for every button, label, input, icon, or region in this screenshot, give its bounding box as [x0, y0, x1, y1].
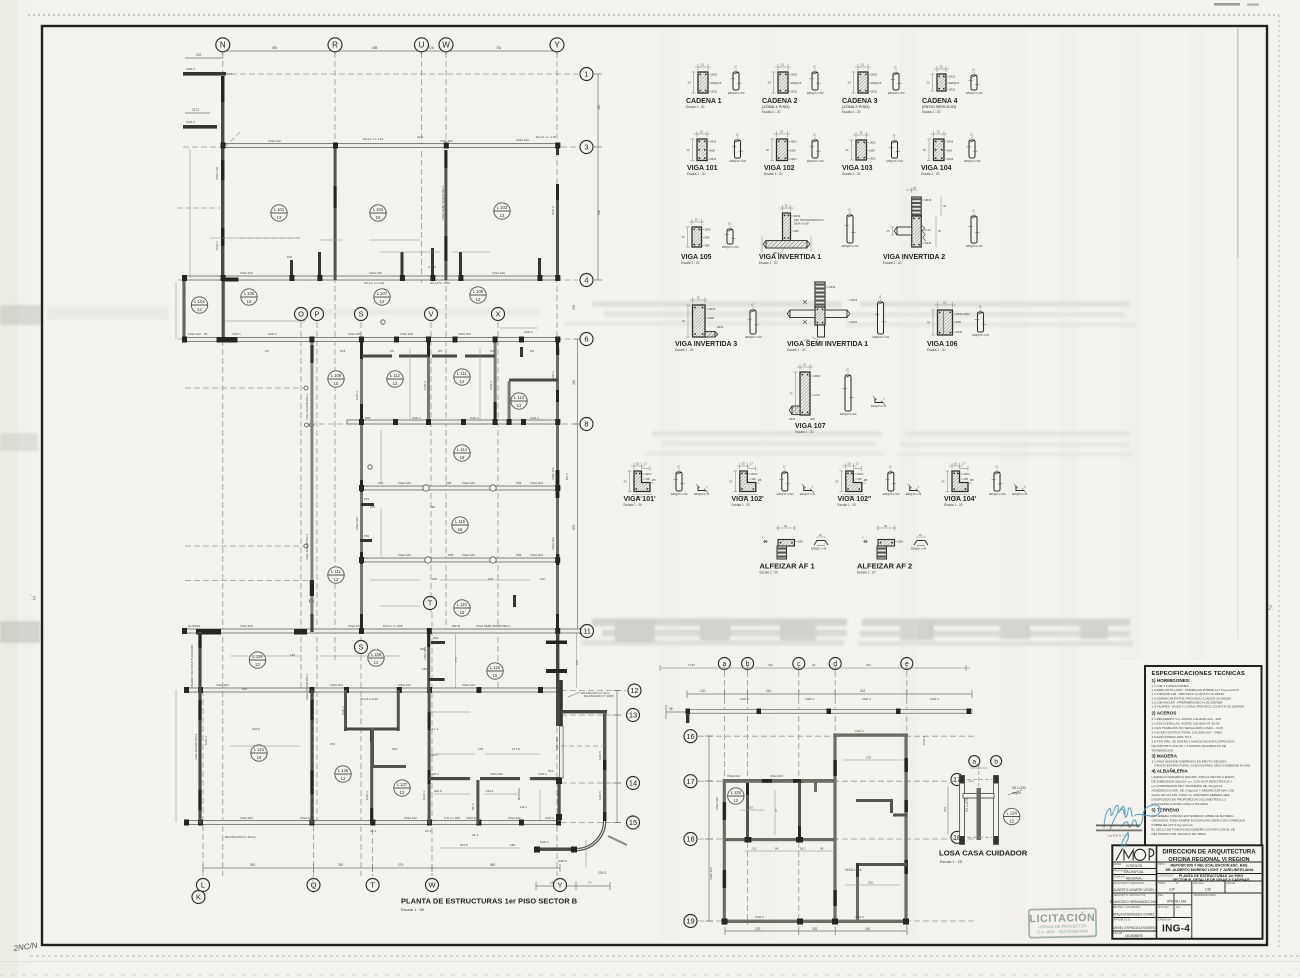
svg-text:5) TERRENO: 5) TERRENO — [1152, 808, 1180, 813]
svg-text:2Ø16: 2Ø16 — [829, 286, 836, 289]
svg-text:EØ6: EØ6 — [709, 317, 715, 320]
svg-text:P06: P06 — [446, 481, 452, 485]
svg-text:2.4 ACERO ESTRUCTURAL CALIDAD: 2.4 ACERO ESTRUCTURAL CALIDAD A37 - 24ES — [1152, 730, 1222, 734]
svg-text:EØ6@15: EØ6@15 — [791, 82, 802, 85]
svg-text:15: 15 — [695, 218, 699, 222]
svg-text:M.H.A. L= 1.35: M.H.A. L= 1.35 — [536, 135, 556, 139]
svg-text:VIGA INVERTIDA 3: VIGA INVERTIDA 3 — [305, 674, 309, 700]
svg-text:VIGA 105: VIGA 105 — [681, 254, 712, 261]
svg-text:V8 L=103: V8 L=103 — [1012, 786, 1026, 790]
grid dashed lines vertical — [203, 52, 557, 876]
svg-text:2Ø12: 2Ø12 — [711, 74, 718, 77]
svg-text:DILATACION e= 30mm: DILATACION e= 30mm — [225, 835, 256, 839]
grid dashed lines — [698, 671, 975, 930]
svg-text:2Ø16: 2Ø16 — [710, 158, 717, 161]
svg-text:LGP: LGP — [1169, 888, 1175, 892]
detail rails — [960, 776, 965, 845]
svg-text:13: 13 — [629, 711, 637, 720]
svg-text:DR. ALBERTO MORENO LIGHT Y JAR: DR. ALBERTO MORENO LIGHT Y JARD.INF.ELIA… — [1165, 868, 1254, 872]
svg-text:15: 15 — [886, 229, 890, 233]
room tag L 159 — [368, 650, 384, 666]
svg-text:N: N — [220, 41, 226, 50]
svg-text:CAD 1: CAD 1 — [524, 330, 533, 334]
svg-text:L 104: L 104 — [194, 299, 205, 304]
top long beam CAD 4 — [687, 710, 972, 714]
svg-text:178: 178 — [478, 747, 483, 751]
svg-text:P16: P16 — [548, 769, 554, 773]
svg-text:Escala 1 : 20: Escala 1 : 20 — [883, 261, 902, 265]
svg-text:Escala 1 : 20: Escala 1 : 20 — [838, 503, 857, 507]
svg-text:13: 13 — [277, 215, 282, 220]
svg-text:TERMINACION: TERMINACION — [1152, 748, 1174, 752]
svg-text:EØ6@15 L=100: EØ6@15 L=100 — [840, 414, 857, 416]
svg-text:VIGA 104: VIGA 104 — [921, 165, 952, 172]
svg-text:APROBO D.O.: APROBO D.O. — [1114, 918, 1131, 922]
svg-text:L 119: L 119 — [252, 654, 263, 659]
svg-text:870: 870 — [572, 524, 576, 530]
svg-text:EØ6@15 L=100: EØ6@15 L=100 — [728, 93, 745, 95]
svg-text:12: 12 — [197, 307, 202, 312]
svg-text:P12: P12 — [392, 747, 398, 751]
svg-text:2Ø12: 2Ø12 — [964, 473, 971, 476]
svg-text:A.S. L= 180: A.S. L= 180 — [444, 816, 460, 820]
beam right annex vertical — [560, 726, 564, 778]
svg-text:111: 111 — [752, 847, 757, 851]
svg-text:2Ø12: 2Ø12 — [646, 473, 653, 476]
beam grid12 — [185, 688, 561, 692]
wall long interior x312 — [310, 338, 313, 632]
beam detail VIGA 101p — [623, 462, 710, 508]
svg-text:EØ6: EØ6 — [956, 321, 962, 324]
beam detail VIGA 102pp — [835, 462, 922, 508]
svg-text:L 127: L 127 — [397, 782, 408, 787]
room tag L 107 — [374, 289, 390, 305]
svg-text:2Ø12: 2Ø12 — [949, 76, 956, 79]
svg-text:340: 340 — [597, 104, 601, 110]
svg-text:4: 4 — [584, 276, 588, 285]
svg-text:EØ6@15 L=100: EØ6@15 L=100 — [973, 335, 990, 337]
grid bubble 4 — [580, 274, 593, 287]
svg-text:VIGA 102: VIGA 102 — [727, 774, 740, 778]
svg-text:30: 30 — [847, 81, 851, 85]
band5 verticals — [427, 633, 430, 690]
svg-text:EØ6@15 L=100: EØ6@15 L=100 — [745, 337, 762, 339]
svg-text:EØ6@15 L=100: EØ6@15 L=100 — [888, 93, 905, 95]
svg-text:Escala 1 : 20: Escala 1 : 20 — [764, 172, 783, 176]
svg-text:e=20: e=20 — [925, 229, 931, 232]
svg-text:DOSIFICADO EN PROPORCION VOLUM: DOSIFICADO EN PROPORCION VOLUMETRICA 1:3 — [1152, 797, 1227, 801]
svg-text:L 124: L 124 — [1007, 811, 1018, 816]
beam detail VIGA 105 — [681, 218, 739, 266]
svg-text:Escala 1 : 20: Escala 1 : 20 — [921, 172, 940, 176]
svg-text:240.5: 240.5 — [434, 789, 442, 793]
svg-text:VIGA 102: VIGA 102 — [508, 816, 521, 820]
svg-text:CAD 1: CAD 1 — [232, 332, 241, 336]
wall x361 — [360, 341, 363, 632]
svg-text:DILATACION e= 2cm: DILATACION e= 2cm — [581, 691, 610, 695]
svg-text:VIGA INVERTIDA 2: VIGA INVERTIDA 2 — [883, 254, 945, 261]
svg-text:V 200: V 200 — [428, 265, 436, 269]
svg-text:2.3 EN TRABAJOS NO SENALADOS U: 2.3 EN TRABAJOS NO SENALADOS USAR ~ CU8 — [1152, 726, 1223, 730]
svg-text:VIGA INVERTIDA 3: VIGA INVERTIDA 3 — [675, 341, 737, 348]
svg-text:EØ8@21 L=34: EØ8@21 L=34 — [911, 549, 927, 551]
svg-text:15: 15 — [785, 204, 789, 208]
gilatacion arrow note — [568, 692, 580, 697]
beam detail VIGA INVERTIDA 3 — [675, 296, 762, 353]
svg-text:VIGA INVERTIDA 3: VIGA INVERTIDA 3 — [305, 534, 309, 560]
svg-text:1) HORMIGONES:: 1) HORMIGONES: — [1152, 678, 1191, 683]
svg-text:16: 16 — [257, 755, 262, 760]
svg-text:VIGA 102: VIGA 102 — [440, 139, 453, 143]
svg-text:AGUA DE UN 14% TODO 12. MORTER: AGUA DE UN 14% TODO 12. MORTERO DEBERA S… — [1152, 793, 1231, 797]
svg-text:VIGA 105: VIGA 105 — [348, 332, 361, 336]
grid bubble b — [742, 658, 754, 670]
svg-text:CO...: CO... — [1176, 905, 1182, 909]
svg-text:`s: `s — [30, 595, 36, 602]
svg-text:VIGA 103: VIGA 103 — [240, 271, 253, 275]
svg-text:8: 8 — [584, 420, 588, 429]
svg-text:30: 30 — [767, 81, 771, 85]
svg-text:15: 15 — [913, 186, 917, 190]
beam detail VIGA 102p — [729, 462, 816, 508]
svg-text:CIERRO S/ESTRUCTURACION: CIERRO S/ESTRUCTURACION — [190, 645, 194, 688]
beam grid8 — [347, 420, 560, 424]
svg-text:2Ø16: 2Ø16 — [710, 141, 717, 144]
svg-text:LA COMPRESION MIN. PROMEDIO DE: LA COMPRESION MIN. PROMEDIO DE 40 kg/cm2 — [1152, 784, 1223, 788]
svg-text:VIGA 106: VIGA 106 — [369, 271, 382, 275]
svg-text:EØ6@15 L=100: EØ6@15 L=100 — [777, 494, 794, 496]
svg-text:EØ6@15 L=100: EØ6@15 L=100 — [966, 93, 983, 95]
svg-text:120: 120 — [700, 689, 706, 693]
ghost band B — [0, 431, 1133, 457]
svg-text:12: 12 — [393, 381, 398, 386]
beam detail VIGA 107 — [789, 363, 887, 435]
svg-text:P06: P06 — [516, 553, 522, 557]
svg-text:30: 30 — [687, 81, 691, 85]
svg-text:L 126: L 126 — [731, 790, 742, 795]
piers on beams — [182, 143, 585, 826]
beam detail CADENA 4 — [922, 65, 983, 115]
svg-text:EØ6@15 L=100: EØ6@15 L=100 — [989, 494, 1006, 496]
svg-text:15: 15 — [636, 462, 640, 466]
svg-text:15: 15 — [859, 131, 863, 135]
svg-text:1:50: 1:50 — [1205, 888, 1211, 892]
interior verticals — [746, 783, 749, 841]
svg-text:12: 12 — [380, 299, 385, 304]
svg-text:15: 15 — [803, 363, 807, 367]
svg-text:EØ6@15 L=100: EØ6@15 L=100 — [887, 161, 904, 163]
svg-text:X: X — [496, 310, 501, 319]
rotated labels along vertical walls — [190, 167, 602, 810]
svg-text:142.8: 142.8 — [557, 347, 561, 355]
svg-text:P01: P01 — [364, 534, 370, 538]
svg-text:V: V — [429, 310, 434, 319]
svg-text:CAD 6: CAD 6 — [598, 751, 602, 760]
diagonal pen mark near curve — [608, 836, 627, 845]
svg-text:236: 236 — [868, 881, 873, 885]
svg-text:EØ6@15 L=46: EØ6@15 L=46 — [800, 494, 816, 496]
svg-text:P21: P21 — [287, 255, 293, 259]
svg-text:P21: P21 — [364, 497, 370, 501]
beam detail CADENA 3 — [842, 63, 905, 115]
svg-text:EØ6@15 L=100: EØ6@15 L=100 — [873, 337, 890, 339]
signature (blue) — [1104, 805, 1160, 847]
svg-text:12: 12 — [334, 577, 339, 582]
svg-text:11: 11 — [583, 627, 591, 636]
svg-text:192.6: 192.6 — [252, 727, 260, 731]
left margin strip — [0, 0, 18, 978]
svg-text:340: 340 — [865, 927, 871, 931]
beam detail VIGA 104 — [921, 130, 981, 177]
right room inner walls — [856, 799, 893, 802]
svg-text:CAD 2: CAD 2 — [215, 241, 219, 250]
svg-text:2Ø12: 2Ø12 — [949, 89, 956, 92]
svg-text:EØ6@15 L=100: EØ6@15 L=100 — [842, 246, 859, 248]
svg-text:2172: 2172 — [192, 108, 199, 112]
svg-text:REPOSICION Y RELOCALIZACION ES: REPOSICION Y RELOCALIZACION ESC. BAS. — [1171, 864, 1249, 868]
svg-text:2Ø16: 2Ø16 — [851, 299, 858, 302]
project title lines — [1165, 864, 1254, 883]
svg-text:190: 190 — [432, 577, 437, 581]
grid bubble X — [492, 308, 505, 321]
svg-text:93: 93 — [976, 763, 980, 767]
stubs above grid4 beam — [290, 248, 541, 277]
svg-text:4Ø10: 4Ø10 — [851, 321, 858, 324]
svg-text:2Ø12: 2Ø12 — [751, 473, 758, 476]
svg-text:(PATIO SERVICIO): (PATIO SERVICIO) — [922, 104, 957, 109]
svg-text:Escala 1 : 20: Escala 1 : 20 — [681, 261, 700, 265]
svg-text:VIGA 180: VIGA 180 — [466, 816, 479, 820]
svg-text:15: 15 — [943, 301, 947, 305]
svg-text:VIGA 106: VIGA 106 — [927, 341, 958, 348]
svg-text:P06: P06 — [448, 553, 454, 557]
svg-text:VIGA 102: VIGA 102 — [188, 332, 201, 336]
svg-text:EL SELLO DE FUNDACION DEBERA C: EL SELLO DE FUNDACION DEBERA CONTAR CON … — [1152, 827, 1235, 831]
svg-text:VIGA INVERTIDA 1: VIGA INVERTIDA 1 — [759, 254, 821, 261]
svg-text:15: 15 — [781, 63, 785, 67]
svg-text:Y: Y — [558, 881, 563, 890]
svg-text:15: 15 — [697, 296, 701, 300]
svg-text:DIRECCION DE ARQUITECTURA: DIRECCION DE ARQUITECTURA — [1162, 850, 1256, 856]
svg-text:D.A. MOP - SEXTA REGIÓN: D.A. MOP - SEXTA REGIÓN — [1037, 928, 1088, 934]
svg-text:15: 15 — [742, 462, 746, 466]
svg-text:30: 30 — [623, 479, 627, 483]
MOP logo cell — [1116, 849, 1154, 861]
svg-text:VI REGION: VI REGION — [1126, 864, 1143, 868]
svg-text:NF 2: NF 2 — [471, 803, 475, 810]
svg-text:2Ø16: 2Ø16 — [956, 331, 963, 334]
h-wall y777 segments — [429, 777, 561, 780]
svg-text:420: 420 — [572, 379, 576, 385]
svg-text:295: 295 — [572, 304, 576, 310]
svg-text:Escala 1 : 20: Escala 1 : 20 — [762, 110, 781, 114]
svg-text:190: 190 — [242, 687, 247, 691]
top dimension chain — [185, 47, 557, 113]
grid bubble 19 — [684, 915, 697, 928]
grid bubble N — [216, 38, 230, 52]
svg-text:ESCALERILLA ROMA CADA 3 HILADA: ESCALERILLA ROMA CADA 3 HILADAS — [1152, 802, 1209, 806]
svg-text:Ø8: Ø8 — [858, 478, 862, 481]
svg-text:CAD 2: CAD 2 — [755, 915, 764, 919]
right dimension chain — [574, 74, 622, 823]
WH room walls — [345, 728, 399, 731]
room tag L 103 — [494, 203, 510, 219]
grid bubble 15 — [627, 816, 640, 829]
svg-text:Escala 1 : 20: Escala 1 : 20 — [842, 172, 861, 176]
svg-text:30: 30 — [927, 321, 931, 325]
svg-text:L 101: L 101 — [274, 207, 285, 212]
svg-text:P10: P10 — [227, 72, 233, 76]
svg-text:S: S — [359, 643, 364, 652]
svg-text:W: W — [442, 41, 450, 50]
beam detail VIGA INVERTIDA 1 — [759, 204, 859, 266]
svg-text:VIGA 104: VIGA 104 — [355, 517, 359, 530]
svg-text:4Ø8: 4Ø8 — [794, 230, 799, 233]
grid bubble 3 — [580, 141, 593, 154]
svg-text:ING-4: ING-4 — [1162, 924, 1190, 935]
svg-text:P3: P3 — [265, 349, 269, 353]
svg-text:2Ø16: 2Ø16 — [709, 308, 716, 311]
svg-text:EØ6: EØ6 — [870, 150, 876, 153]
svg-text:ORGANICA. FODA SOBRE EXCAVACIO: ORGANICA. FODA SOBRE EXCAVACION SERA CON… — [1152, 818, 1245, 822]
svg-text:2Ø12: 2Ø12 — [791, 74, 798, 77]
room tag L 120 — [487, 663, 503, 679]
svg-text:202: 202 — [196, 53, 202, 57]
svg-text:VIGA 140: VIGA 140 — [215, 167, 219, 180]
svg-text:EØ8@21 L=34: EØ8@21 L=34 — [811, 549, 827, 551]
svg-text:2Ø12: 2Ø12 — [857, 473, 864, 476]
svg-text:VIGA 102: VIGA 102 — [516, 138, 529, 142]
svg-text:ADHERENCIA MIN. DE 2 Kg/cm2 Y: ADHERENCIA MIN. DE 2 Kg/cm2 Y ABSORCION … — [1152, 788, 1234, 792]
band6 bottom rooms — [310, 690, 313, 824]
svg-text:L 111: L 111 — [331, 569, 341, 574]
grid bubble b — [991, 756, 1002, 767]
svg-text:4Ø8: 4Ø8 — [810, 418, 815, 421]
svg-text:ARQUITECTO REGIONAL: ARQUITECTO REGIONAL — [1114, 881, 1146, 885]
svg-text:FOBRE DE 127.5 Kg cem/m3: FOBRE DE 127.5 Kg cem/m3 — [1152, 823, 1193, 827]
svg-text:M.H.A. L= 378: M.H.A. L= 378 — [383, 624, 403, 628]
svg-text:VIGA 104: VIGA 104 — [398, 683, 411, 687]
svg-text:CAD 3: CAD 3 — [422, 791, 426, 800]
beam grid6 — [183, 338, 560, 342]
svg-text:17: 17 — [856, 462, 860, 466]
svg-text:GRADO ESTRUCTURAL G2 EN ESTADO: GRADO ESTRUCTURAL G2 EN ESTADO SECO HUME… — [1155, 764, 1251, 768]
top edge small dark dashes right — [1214, 3, 1240, 6]
svg-text:CAD 2: CAD 2 — [922, 736, 926, 745]
svg-text:183: 183 — [422, 667, 427, 671]
beam detail ALFEIZAR AF 1 — [760, 524, 829, 575]
grid bubble T — [424, 597, 437, 610]
svg-text:6: 6 — [584, 335, 588, 344]
svg-text:2.2 ESCALERILLAS: ACERO CALIDA: 2.2 ESCALERILLAS: ACERO CALIDAD AT 56-50 — [1152, 721, 1220, 725]
beam grid4 — [183, 276, 560, 280]
svg-text:L 110: L 110 — [457, 602, 468, 607]
grid bubble d — [829, 658, 841, 670]
svg-text:según: según — [1012, 791, 1021, 795]
svg-text:NIVEL: NIVEL — [1158, 881, 1166, 885]
svg-text:M97: M97 — [365, 416, 371, 420]
svg-text:Ø8: Ø8 — [752, 478, 756, 481]
beam VIGA 102 grid3 — [222, 144, 560, 148]
svg-text:VIGA 101': VIGA 101' — [624, 496, 656, 503]
svg-text:Escala 1 : 25: Escala 1 : 25 — [940, 860, 962, 864]
svg-text:14: 14 — [629, 779, 637, 788]
svg-text:VIGA 102: VIGA 102 — [240, 816, 253, 820]
grid bubble O — [295, 308, 308, 321]
svg-text:880: 880 — [490, 863, 496, 867]
svg-text:EØ6@15 L=100: EØ6@15 L=100 — [730, 161, 747, 163]
svg-text:190: 190 — [430, 505, 435, 509]
svg-text:L 105: L 105 — [244, 291, 255, 296]
svg-text:EØ6: EØ6 — [947, 149, 953, 152]
walls: left top beam VIGA 102/103 — [723, 779, 834, 783]
grid bubble W — [426, 879, 439, 892]
svg-text:12: 12 — [733, 798, 738, 803]
beam detail CADENA 2 — [762, 63, 824, 115]
svg-text:30: 30 — [784, 524, 788, 528]
svg-text:CAD 2: CAD 2 — [551, 206, 555, 215]
svg-text:L 102: L 102 — [373, 207, 384, 212]
svg-text:EØ6@15 L=46: EØ6@15 L=46 — [906, 494, 922, 496]
svg-text:266: 266 — [943, 807, 947, 812]
grid bubble V — [425, 308, 438, 321]
svg-text:VIGA 102: VIGA 102 — [551, 467, 555, 480]
svg-text:455: 455 — [372, 46, 378, 50]
room tag L 105 — [241, 289, 257, 305]
svg-text:M7: M7 — [530, 349, 534, 353]
svg-text:R: R — [332, 41, 338, 50]
svg-text:50: 50 — [938, 229, 942, 233]
svg-text:PLANTA DE ESTRUCTURAS 1er PISO: PLANTA DE ESTRUCTURAS 1er PISO SECTOR B — [401, 897, 577, 906]
svg-text:580: 580 — [272, 46, 278, 50]
svg-text:CAD 3: CAD 3 — [412, 416, 421, 420]
svg-text:2Ø16: 2Ø16 — [814, 375, 821, 378]
grid bubble 17 — [684, 775, 697, 788]
svg-text:CAD 3: CAD 3 — [551, 371, 555, 380]
room tag L 115 — [452, 517, 468, 533]
svg-text:2Ø12: 2Ø12 — [870, 158, 877, 161]
grid bubble 12 — [628, 684, 641, 697]
svg-text:EØ6: EØ6 — [710, 149, 716, 152]
svg-text:12: 12 — [341, 776, 346, 781]
svg-text:L 111: L 111 — [457, 371, 467, 376]
grid bubble W — [439, 38, 453, 52]
svg-text:Escala 1 : 20: Escala 1 : 20 — [732, 503, 751, 507]
svg-text:K: K — [196, 893, 201, 902]
svg-text:15: 15 — [940, 65, 944, 69]
svg-text:VIGA 151a: VIGA 151a — [845, 868, 862, 872]
svg-text:3) MADERA: 3) MADERA — [1152, 754, 1178, 759]
svg-text:Escala 1 : 20: Escala 1 : 20 — [944, 503, 963, 507]
svg-text:VIGA 104: VIGA 104 — [530, 553, 543, 557]
interior horizontal CAD 2 — [723, 838, 837, 841]
svg-text:6.a R E G I O N: 6.a R E G I O N — [1108, 834, 1129, 838]
svg-text:113.3: 113.3 — [486, 789, 494, 793]
svg-text:(ZONA 2 PISO): (ZONA 2 PISO) — [842, 104, 870, 109]
svg-text:CAD 4: CAD 4 — [862, 697, 871, 701]
LICITACION stamp — [1029, 908, 1097, 937]
plan2 interior dims — [740, 760, 903, 885]
svg-text:CAD 1: CAD 1 — [538, 772, 547, 776]
lower interior vertical — [833, 841, 836, 923]
grid bubble U — [415, 38, 429, 52]
svg-text:EØ6: EØ6 — [791, 149, 797, 152]
svg-text:L 107: L 107 — [377, 291, 388, 296]
svg-text:2.5 ELECTRODO AWS 70/ S: 2.5 ELECTRODO AWS 70/ S — [1152, 735, 1192, 739]
svg-text:Escala 1 : 20: Escala 1 : 20 — [842, 110, 861, 114]
svg-text:M.H.A.S.- 2.60: M.H.A.S.- 2.60 — [430, 281, 450, 285]
svg-text:VIGA 103: VIGA 103 — [458, 332, 471, 336]
